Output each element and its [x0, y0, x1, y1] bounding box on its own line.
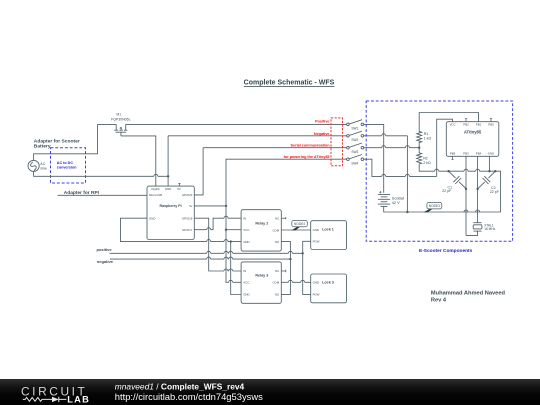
- wire hops on ground rail: [464, 169, 480, 171]
- svg-text:R1: R1: [424, 132, 429, 136]
- svg-text:VCC: VCC: [243, 228, 249, 232]
- wire: negative column down to NODE3 rail: [406, 136, 408, 212]
- svg-text:GND: GND: [165, 187, 171, 191]
- IC: Raspberry Pi block: [147, 186, 194, 239]
- wire: Relay3 COM to Lock2 GND: [281, 281, 310, 283]
- svg-text:Relay 2: Relay 2: [255, 221, 268, 225]
- svg-text:negative: negative: [97, 259, 114, 264]
- svg-text:Lock 3: Lock 3: [322, 280, 334, 284]
- wire hops on GND wire: [207, 240, 228, 242]
- svg-text:IN: IN: [243, 216, 246, 220]
- red dashed box around switches: [331, 118, 343, 166]
- svg-text:Positive: Positive: [315, 119, 329, 123]
- wire hop at (230.7,282.3): [229, 280, 233, 282]
- svg-text:SW2: SW2: [351, 138, 358, 142]
- svg-text:16 MHz: 16 MHz: [484, 227, 495, 231]
- wire: GPIO18 to Relay3 IN: [194, 218, 241, 271]
- pin stub PB0 (open): [490, 119, 492, 122]
- svg-text:Lock 1: Lock 1: [322, 228, 334, 232]
- wire: negative rail: [110, 258, 290, 260]
- svg-text:GND: GND: [149, 216, 155, 220]
- battery ScoBat 42V: [378, 194, 501, 212]
- svg-text:PB0: PB0: [488, 122, 494, 126]
- svg-text:GND: GND: [313, 228, 319, 232]
- wire hop at (436.7,171.2): [435, 169, 439, 171]
- IC U1 ATtiny85: [446, 122, 499, 157]
- wire: SW2 out to node column: [364, 135, 408, 137]
- AC to DC conversion block (blue dashed): [51, 148, 86, 183]
- wire hops on NODE3 rail: [464, 210, 480, 212]
- svg-text:R2: R2: [423, 156, 428, 160]
- switch SW2: [347, 131, 364, 137]
- wire: rail1 left segment to M1: [98, 123, 117, 125]
- wire hops on COM wire: [288, 280, 304, 282]
- svg-text:Raspberry Pi: Raspberry Pi: [160, 204, 182, 208]
- switch SW3: [347, 143, 364, 149]
- wire: branch to Relay2 VCC: [226, 229, 241, 231]
- svg-text:Battery: Battery: [34, 144, 51, 150]
- svg-text:NO: NO: [275, 293, 280, 297]
- junction at (226,229.7): [225, 229, 227, 231]
- svg-text:GND: GND: [488, 151, 494, 155]
- IC: Relay 2 block: [241, 210, 281, 251]
- svg-text:ATtiny85: ATtiny85: [464, 130, 482, 135]
- svg-text:22 pF: 22 pF: [490, 190, 500, 194]
- svg-text:FQP30N06L: FQP30N06L: [111, 118, 131, 122]
- wire hops on positive rail: [207, 251, 293, 253]
- svg-text:E-Scooter Components: E-Scooter Components: [419, 248, 473, 254]
- pin stub Relay2 NC (open): [281, 217, 286, 219]
- logo zigzag and diode: [23, 397, 67, 402]
- wire: AC source top to M1 rail: [34, 124, 98, 160]
- svg-text:DigPin: DigPin: [152, 187, 161, 191]
- wire: ground rail right portion: [449, 171, 501, 212]
- wire: GND vertical down to Relay3 GND: [231, 242, 241, 295]
- svg-text:MicroUSB: MicroUSB: [149, 193, 162, 197]
- wire: SW1 out to battery top: [364, 124, 384, 192]
- wire: 5v vertical down to Relay3 VCC: [226, 206, 241, 282]
- svg-text:Relay 3: Relay 3: [255, 274, 268, 278]
- wire: rail4 to SW4: [226, 159, 347, 206]
- svg-text:COM: COM: [272, 281, 279, 285]
- wire: Relay2 COM to Lock1 GND: [281, 229, 310, 231]
- svg-text:ScoBat: ScoBat: [392, 197, 405, 201]
- label: AC to DC conversion: [57, 161, 77, 169]
- wire: PB4 vertical to crystal top: [477, 156, 479, 222]
- wire: GPIO23 up to rail3 Serial: [194, 148, 203, 195]
- svg-text:AC to DC: AC to DC: [57, 161, 74, 165]
- arrow on M1 body leg: [119, 127, 122, 129]
- wire: PB3 vertical to crystal loop: [465, 156, 467, 235]
- junction at (466,188.9): [465, 188, 467, 190]
- IC: Lock 1 block: [311, 221, 347, 250]
- wire: GPIO17 to Relay2 IN: [194, 218, 241, 230]
- wire hops on power rail: [382, 174, 410, 176]
- blue dashed box: E-Scooter Components: [366, 101, 512, 241]
- wire hops on relay2 IN wire: [207, 216, 228, 230]
- wire: power rail up to ATtiny VCC: [437, 119, 453, 176]
- svg-text:NODE4: NODE4: [294, 222, 305, 226]
- junction at (230.7,241.6): [230, 240, 232, 242]
- junction at (407.4,212): [406, 211, 408, 213]
- transistor M1 FQP30N06L (MOSFET): [114, 124, 127, 135]
- svg-text:1 kΩ: 1 kΩ: [424, 137, 432, 141]
- resistor R2 2k: [417, 151, 422, 166]
- svg-text:IN: IN: [243, 269, 246, 273]
- svg-text:Adapter for Scooter: Adapter for Scooter: [34, 138, 80, 144]
- switch SW1: [347, 120, 364, 126]
- wire: Pi GND loop to relay GND rail: [121, 218, 242, 241]
- svg-text:GND: GND: [243, 240, 249, 244]
- wire: rail3 Serial to SW3: [203, 147, 347, 149]
- svg-text:positive: positive: [97, 247, 113, 252]
- svg-text:AC: AC: [40, 162, 45, 166]
- wire: Lock1 POW down to Lock2 POW: [303, 241, 311, 294]
- svg-text:GND: GND: [243, 293, 249, 297]
- wire: R2 bottom to ground rail: [419, 167, 448, 172]
- title: Complete Schematic - WFS: [244, 80, 335, 87]
- junction at (448.6,171.2): [447, 170, 449, 172]
- pin stub PB5 (open): [451, 156, 453, 159]
- svg-text:http://circuitlab.com/ctdn74g5: http://circuitlab.com/ctdn74g53ysws: [115, 391, 263, 402]
- wire: AC source bottom rail to GND node: [34, 172, 169, 177]
- svg-text:SW3: SW3: [351, 150, 358, 154]
- IC: Lock 3 block: [311, 274, 347, 303]
- svg-text:VCC: VCC: [449, 122, 455, 126]
- capacitor C2 22pF (diagonal mirrored): [478, 171, 495, 188]
- svg-text:Complete Schematic - WFS: Complete Schematic - WFS: [244, 80, 335, 87]
- svg-text:NC: NC: [275, 216, 279, 220]
- junction at (226,205.9): [225, 205, 227, 207]
- svg-text:22 pF: 22 pF: [442, 189, 452, 193]
- junction at (302.7,253.3): [302, 252, 304, 254]
- svg-text:PB3: PB3: [463, 151, 469, 155]
- IC: Relay 3 block: [241, 262, 281, 303]
- svg-text:Serial communication: Serial communication: [291, 143, 331, 147]
- junction at (419.2,147.7): [418, 147, 420, 149]
- flag NODE3: [424, 202, 442, 212]
- wire: MicroUSB lead (dangling): [58, 194, 148, 196]
- svg-text:POW: POW: [313, 240, 320, 244]
- switch SW4: [347, 155, 364, 161]
- wire: SW3 out to R1-R2 junction: [364, 147, 420, 149]
- label: Adapter for Scooter Battery: [34, 138, 80, 149]
- pin stub Pi 5V top (open): [178, 183, 180, 186]
- wire: rail2 Negative to SW2: [168, 135, 347, 137]
- battery plus sign: [379, 191, 381, 193]
- svg-text:NO: NO: [275, 240, 280, 244]
- svg-text:Muhammad Ahmed Naveed: Muhammad Ahmed Naveed: [431, 290, 506, 296]
- wire: R1 bottom to R2 top: [418, 144, 420, 151]
- footer bar: [0, 379, 540, 405]
- svg-text:VCC: VCC: [243, 281, 249, 285]
- svg-text:NODE3: NODE3: [429, 204, 440, 208]
- junction at (290.4,259.1): [289, 258, 291, 260]
- svg-text:sine: sine: [40, 167, 47, 171]
- wire hop at (383.7,135.8): [382, 134, 386, 136]
- svg-text:Negative: Negative: [314, 132, 330, 136]
- label: AC sine: [40, 162, 47, 170]
- junction at (477.6,188.9): [476, 188, 478, 190]
- voltage source V1 (AC sine): [28, 160, 39, 171]
- capacitor C1 22pF (diagonal): [449, 171, 466, 188]
- wire: SW4 out down to ATtiny power rail: [364, 159, 437, 176]
- pin stub PB2 (open): [465, 119, 467, 122]
- svg-text:M1: M1: [117, 113, 122, 117]
- svg-text:GPIO17: GPIO17: [182, 228, 193, 232]
- svg-text:GPIO23: GPIO23: [182, 193, 193, 197]
- crystal XTAL1 16 MHz: [466, 223, 482, 236]
- resistor R1 1k: [417, 130, 422, 145]
- pin stub Relay3 NC (open): [281, 270, 286, 272]
- wire: R1 top to PB1: [419, 113, 478, 130]
- svg-text:PB5: PB5: [450, 151, 456, 155]
- svg-text:2 kΩ: 2 kΩ: [423, 161, 431, 165]
- junction at (168.1,176.3): [167, 175, 169, 177]
- svg-text:for powering the ATtiny85: for powering the ATtiny85: [284, 155, 330, 159]
- svg-text:GND: GND: [313, 281, 319, 285]
- junction at (489.4,171.2): [488, 170, 490, 172]
- svg-text:PB4: PB4: [476, 151, 482, 155]
- wire: Relay2 NO down to Relay3 NO: [281, 242, 290, 295]
- svg-text:42 V: 42 V: [392, 201, 400, 205]
- wire: negative vertical from rail2 down to Pi GND top pin: [167, 136, 169, 186]
- wire hop at (155.8,176.3): [154, 174, 158, 176]
- wire: M1 gate down and right to Raspberry Pi DigPin: [121, 136, 156, 186]
- svg-text:GPIO18: GPIO18: [182, 216, 193, 220]
- wire: Pi 5v pin to power vertical: [194, 205, 226, 207]
- svg-text:conversion: conversion: [57, 165, 77, 169]
- svg-text:COM: COM: [272, 229, 279, 233]
- wire hops on serial wire: [382, 146, 410, 148]
- svg-text:PB2: PB2: [463, 122, 469, 126]
- wire: rail1 Positive from M1 to SW1: [126, 123, 347, 125]
- svg-text:POW: POW: [313, 293, 320, 297]
- flag NODE4: [292, 220, 308, 230]
- wire hops on relay3 IN wire: [224, 269, 233, 271]
- svg-text:5v: 5v: [189, 204, 193, 208]
- wire: positive rail: [110, 252, 303, 254]
- svg-text:5V: 5V: [177, 187, 181, 191]
- wire hops on negative rail: [207, 257, 233, 259]
- svg-text:LAB: LAB: [67, 394, 90, 404]
- svg-text:mnaveed1 / Complete_WFS_rev4: mnaveed1 / Complete_WFS_rev4: [115, 381, 245, 391]
- wire: ATtiny GND down to ground rail: [488, 156, 490, 171]
- svg-text:SW1: SW1: [351, 127, 358, 131]
- svg-text:PB1: PB1: [476, 122, 482, 126]
- svg-text:SW4: SW4: [351, 161, 358, 165]
- junction at (495.3,171.2): [494, 170, 496, 172]
- svg-text:Rev 4: Rev 4: [431, 297, 447, 303]
- svg-text:NC: NC: [275, 269, 279, 273]
